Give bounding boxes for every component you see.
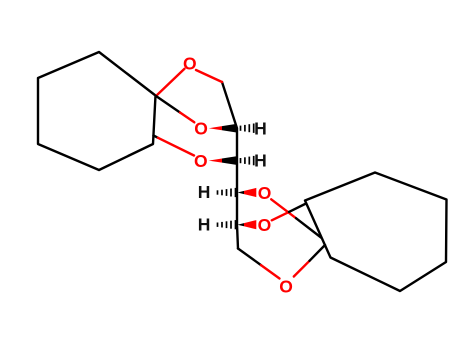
bond Cq1-O2 — [156, 96, 180, 113]
bond O4-A — [271, 199, 296, 218]
svg-text:O: O — [258, 183, 272, 203]
wedge O3-C3 — [209, 159, 222, 163]
svg-text:H: H — [198, 215, 211, 235]
bond C6-O6 — [238, 249, 261, 266]
hash bonds C2-H and C3-H — [241, 124, 254, 166]
svg-text:H: H — [198, 182, 211, 202]
bond Otop-C1 red — [196, 70, 222, 82]
bond X-O3 — [154, 136, 159, 138]
bond Cq1-Otop red — [156, 69, 185, 96]
cyclohexane ring right — [305, 173, 447, 292]
svg-text:O: O — [258, 215, 272, 235]
hash bonds H-C4 and H-C5 — [218, 188, 236, 229]
svg-text:H: H — [254, 151, 267, 171]
wire chain C1-C2-C3-C4-C5-C6 — [222, 82, 238, 249]
wedge C5-O5 — [238, 223, 245, 226]
bond O6-Z — [294, 261, 310, 277]
svg-text:O: O — [279, 277, 293, 297]
svg-text:O: O — [194, 151, 208, 171]
svg-text:H: H — [254, 118, 267, 138]
cyclohexane ring left — [38, 52, 156, 170]
svg-text:O: O — [183, 54, 197, 74]
bond O5-B — [272, 212, 289, 220]
wedge O2-C2 — [209, 124, 257, 229]
svg-text:O: O — [194, 119, 208, 139]
wedge C4-O4 — [238, 191, 245, 194]
